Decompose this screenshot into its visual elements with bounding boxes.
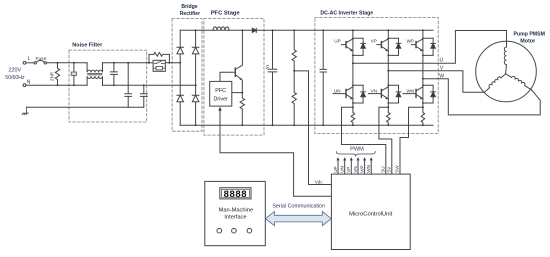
wire PWM gate UN arrow: [344, 161, 346, 175]
terminal L: [23, 61, 26, 64]
ground earth symbol: [22, 107, 28, 115]
svg-text:WP: WP: [407, 39, 415, 44]
svg-text:SV: SV: [387, 166, 392, 173]
svg-text:VP: VP: [346, 167, 351, 173]
svg-text:Serial Communication: Serial Communication: [272, 203, 325, 209]
svg-text:Driver: Driver: [214, 97, 229, 103]
svg-text:V: V: [440, 65, 444, 71]
svg-text:DC-AC Inverter Stage: DC-AC Inverter Stage: [320, 11, 373, 17]
box Man-Machine Interface: [205, 181, 265, 245]
wire N line input to choke: [26, 84, 87, 86]
transistor UN body: [333, 87, 353, 99]
bridge leg 1: [179, 30, 181, 125]
button 1: [217, 228, 222, 233]
varistor ZNR: [55, 63, 59, 85]
diode D1: [177, 47, 184, 54]
transistor UP leg: [353, 30, 363, 63]
wire PWM gate WN arrow: [370, 161, 372, 175]
motor winding V coil: [483, 72, 506, 92]
node dots inverter W leg: [422, 37, 424, 39]
svg-text:PFC Stage: PFC Stage: [211, 10, 241, 16]
resistor divider R2: [292, 71, 296, 125]
wire sense SV: [379, 107, 392, 174]
box MicroControlUnit U2: [331, 174, 410, 249]
svg-text:UN: UN: [334, 89, 341, 94]
wire L line fuse to choke: [47, 62, 88, 64]
resistor shunt U: [351, 107, 355, 125]
svg-text:WP: WP: [359, 165, 364, 172]
svg-text:VN: VN: [353, 166, 358, 172]
node junction dots bottom rail: [195, 124, 197, 126]
capacitor inverter input: [320, 30, 326, 125]
wire PWM gate VP arrow: [350, 161, 352, 175]
resistor divider R1: [292, 30, 296, 71]
transistor VN body: [368, 87, 388, 99]
motor Pump PMSM circle: [476, 41, 537, 102]
transistor WN body: [403, 87, 423, 99]
svg-text:50/60Hz: 50/60Hz: [5, 75, 25, 81]
capacitor Y2: [140, 85, 147, 107]
wire sense SU: [342, 107, 386, 174]
fuse F1: [34, 62, 36, 64]
dashed box PFC Stage: [204, 19, 264, 136]
motor winding W coil: [506, 72, 533, 90]
svg-text:UN: UN: [340, 166, 345, 173]
svg-text:Fuse: Fuse: [35, 56, 46, 62]
svg-text:Man-Machine: Man-Machine: [219, 207, 253, 213]
transistor Q1 PFC switch: [235, 30, 242, 92]
transistor WP leg: [423, 30, 433, 78]
relay K1: [153, 60, 165, 71]
transistor UN leg: [353, 63, 363, 107]
svg-text:Rectifier: Rectifier: [180, 11, 200, 17]
node dots inverter V leg: [387, 37, 389, 39]
diode WP freewheel: [431, 38, 436, 55]
button 2: [232, 228, 237, 233]
capacitor X1 (boxed): [73, 63, 75, 85]
wire PWM gate UP arrow: [337, 161, 339, 175]
node Vdc divider tap: [293, 70, 295, 72]
svg-text:WN: WN: [366, 165, 371, 173]
terminal N: [23, 84, 26, 87]
capacitor X2: [110, 63, 117, 85]
svg-text:Interface: Interface: [224, 214, 246, 220]
svg-text:U: U: [440, 58, 444, 64]
wire L line choke to bridge: [103, 62, 181, 64]
wire sense SW: [400, 107, 423, 174]
resistor bypass over relay: [149, 53, 169, 63]
svg-text:220V: 220V: [9, 68, 22, 74]
wire PFC driver to emitter sense: [232, 92, 243, 94]
wire phase U output: [353, 31, 507, 64]
transistor VP leg: [388, 30, 398, 70]
wire ground rail: [27, 106, 144, 108]
svg-text:W: W: [439, 73, 444, 79]
button 3: [247, 228, 252, 233]
arrow Serial Communication: [266, 211, 332, 225]
svg-text:Noise Filter: Noise Filter: [72, 42, 103, 48]
diode VN freewheel: [396, 85, 401, 103]
common-mode choke L line winding: [87, 63, 102, 73]
wire DC bottom rail: [180, 124, 433, 126]
wire DC top rail: [180, 29, 433, 31]
diode D3: [177, 95, 184, 102]
svg-text:PWM: PWM: [350, 146, 364, 152]
svg-text:Bridge: Bridge: [181, 4, 197, 10]
svg-text:Pump PMSM: Pump PMSM: [513, 32, 544, 38]
wire PFC gate: [220, 72, 235, 81]
resistor PFC emitter shunt: [240, 93, 244, 126]
wire Vdc sense to MCU: [294, 71, 331, 185]
transistor UP body: [341, 39, 353, 51]
wire PFC driver control from MCU: [220, 111, 331, 197]
resistor shunt V: [386, 107, 390, 125]
wire PWM gate WP arrow: [364, 161, 366, 175]
svg-text:VP: VP: [371, 39, 377, 44]
svg-text:WN: WN: [407, 89, 415, 94]
diode VP freewheel: [396, 38, 401, 55]
bridge leg 2: [195, 30, 197, 125]
transistor WP body: [411, 39, 423, 51]
svg-text:N: N: [27, 79, 31, 85]
svg-text:Motor: Motor: [520, 39, 536, 45]
diode D2: [192, 47, 199, 54]
svg-text:8888: 8888: [224, 189, 248, 200]
svg-text:SU: SU: [381, 166, 386, 172]
diode D4: [192, 95, 199, 102]
svg-text:UP: UP: [333, 166, 338, 172]
common-mode choke N line winding: [87, 76, 102, 85]
wire phase W output: [423, 79, 540, 115]
wire L line input to fuse: [26, 62, 34, 64]
display 7-segment: [220, 188, 251, 199]
svg-text:SW: SW: [395, 165, 400, 173]
svg-text:UP: UP: [334, 39, 341, 44]
svg-text:L: L: [28, 56, 31, 62]
capacitor Y1: [125, 63, 132, 107]
dashed box Bridge Rectifier: [172, 19, 202, 132]
node dots inverter U leg: [352, 37, 354, 39]
brace PWM: [336, 152, 375, 156]
motor winding U coil: [504, 31, 506, 74]
capacitor bulk electrolytic: [268, 30, 277, 125]
node junction dots L line: [57, 62, 59, 64]
svg-text:Vdc: Vdc: [315, 179, 324, 184]
svg-text:ZNR: ZNR: [49, 72, 54, 81]
wire N line choke to bridge: [103, 84, 196, 86]
wire PWM gate VN arrow: [357, 161, 359, 175]
dashed box Noise Filter: [69, 50, 147, 122]
transistor VN leg: [388, 71, 398, 108]
diode UN freewheel: [361, 85, 366, 103]
transistor VP body: [377, 39, 389, 51]
diode WN freewheel: [431, 85, 436, 103]
inductor PFC boost: [213, 27, 229, 30]
svg-text:PFC: PFC: [215, 88, 226, 94]
node junction dots N line: [57, 84, 59, 86]
node PFC emitter sense: [241, 92, 243, 94]
common-mode choke core: [88, 74, 102, 75]
node junction dots top rail: [195, 29, 197, 31]
diode UP freewheel: [361, 38, 366, 55]
diode PFC boost: [252, 28, 256, 32]
dashed box DC-AC Inverter Stage: [315, 18, 438, 134]
resistor shunt W: [421, 107, 425, 125]
wire phase V output: [388, 71, 484, 93]
transistor WN leg: [423, 79, 433, 108]
svg-text:MicroControlUnit: MicroControlUnit: [349, 211, 393, 217]
svg-text:VN: VN: [371, 89, 378, 94]
op-amp PFC Driver box: [210, 81, 232, 106]
